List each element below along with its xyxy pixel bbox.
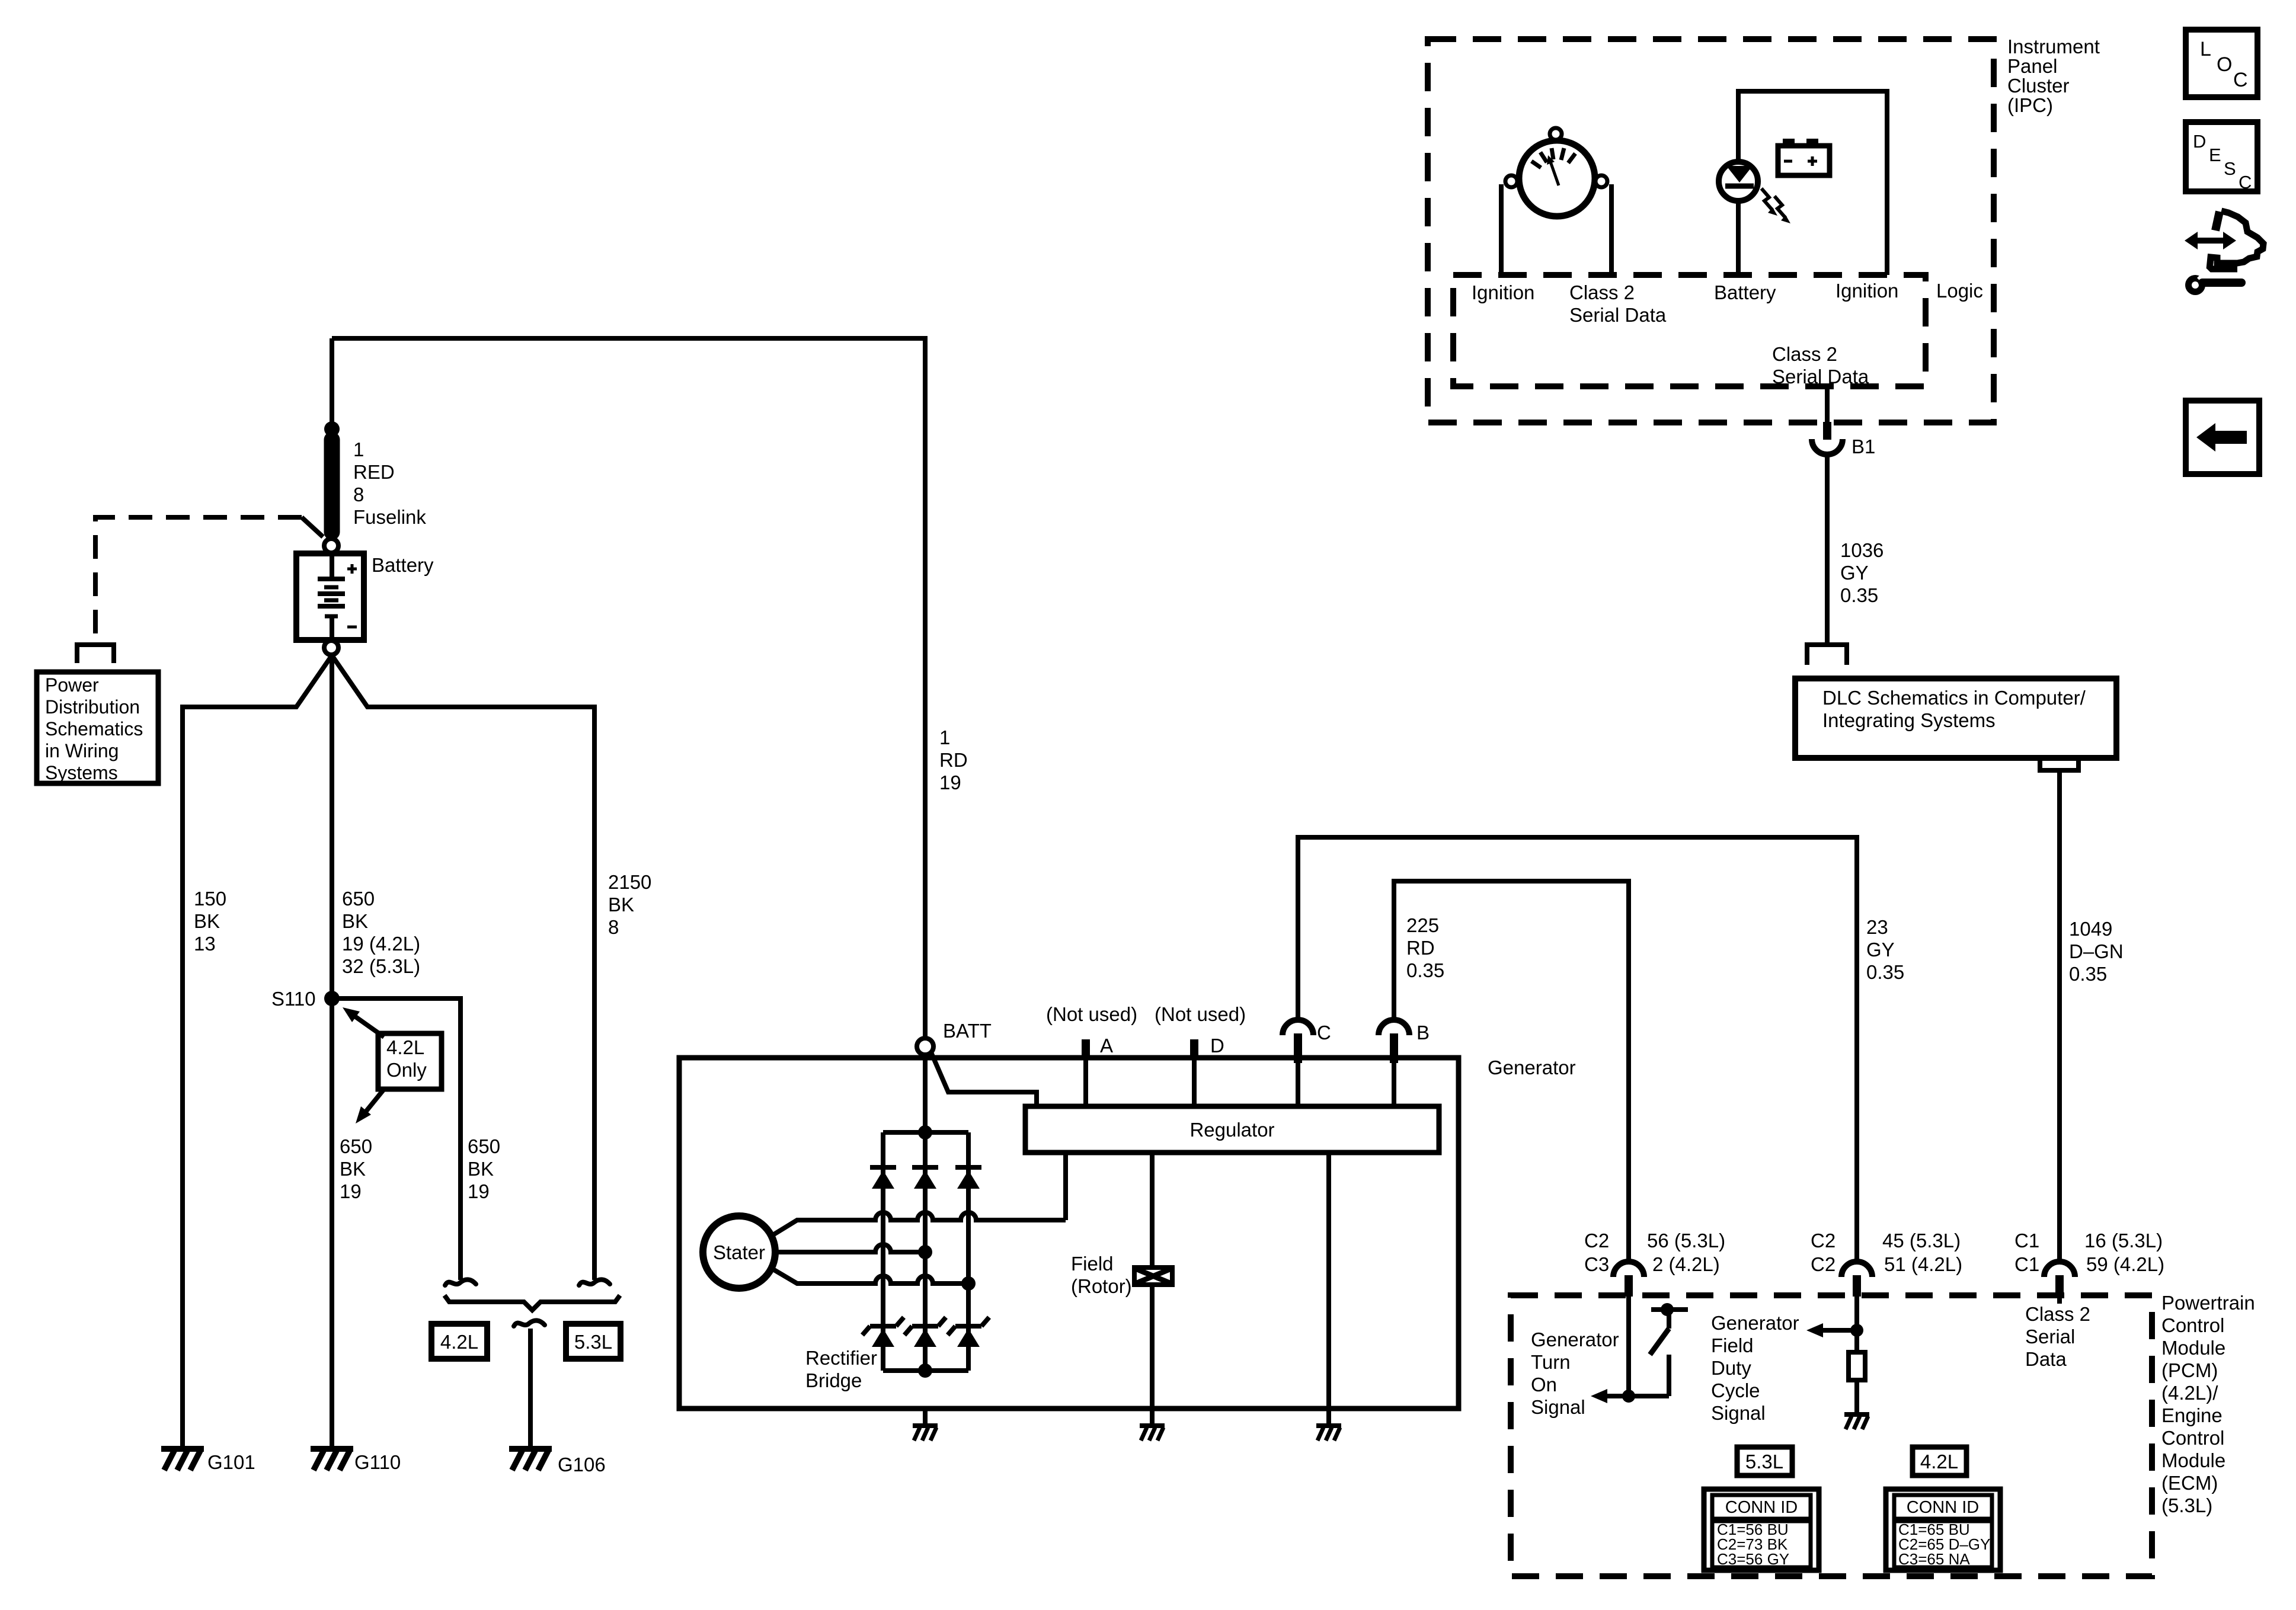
svg-text:in Wiring: in Wiring [45, 740, 119, 761]
svg-text:BK: BK [342, 910, 368, 932]
svg-text:BK: BK [468, 1158, 494, 1180]
svg-text:Field: Field [1071, 1253, 1114, 1275]
svg-text:1: 1 [353, 438, 364, 460]
svg-text:Signal: Signal [1711, 1402, 1766, 1424]
svg-text:Generator: Generator [1711, 1312, 1799, 1334]
svg-text:CONN ID: CONN ID [1725, 1498, 1798, 1517]
svg-text:0.35: 0.35 [1406, 959, 1444, 981]
svg-text:Schematics: Schematics [45, 718, 143, 740]
svg-text:O: O [2217, 53, 2232, 76]
svg-text:19: 19 [939, 772, 961, 793]
svg-text:Ignition: Ignition [1472, 281, 1534, 303]
svg-text:D–GN: D–GN [2069, 940, 2124, 962]
svg-text:Module: Module [2161, 1449, 2225, 1471]
svg-text:D: D [2193, 131, 2206, 152]
svg-text:S110: S110 [271, 988, 316, 1010]
svg-text:19: 19 [340, 1180, 362, 1202]
svg-text:L: L [2200, 38, 2211, 60]
svg-text:4.2L: 4.2L [440, 1331, 478, 1353]
svg-text:Battery: Battery [372, 554, 434, 576]
svg-text:4.2L: 4.2L [1920, 1451, 1958, 1473]
svg-text:CONN ID: CONN ID [1907, 1498, 1979, 1517]
svg-text:A: A [1100, 1035, 1113, 1057]
svg-text:32 (5.3L): 32 (5.3L) [342, 955, 420, 977]
svg-text:650: 650 [340, 1135, 372, 1157]
svg-text:S: S [2224, 158, 2236, 179]
svg-text:C3: C3 [1584, 1253, 1609, 1275]
svg-text:Cluster: Cluster [2007, 75, 2070, 97]
svg-text:19 (4.2L): 19 (4.2L) [342, 933, 420, 955]
svg-text:(ECM): (ECM) [2161, 1472, 2218, 1494]
svg-text:Signal: Signal [1531, 1396, 1585, 1418]
svg-text:C: C [1317, 1022, 1331, 1044]
svg-text:(4.2L)/: (4.2L)/ [2161, 1382, 2218, 1404]
svg-text:59 (4.2L): 59 (4.2L) [2086, 1253, 2164, 1275]
svg-text:E: E [2209, 145, 2221, 165]
svg-text:19: 19 [468, 1180, 490, 1202]
svg-text:C3=56 GY: C3=56 GY [1717, 1550, 1789, 1568]
svg-text:8: 8 [353, 484, 364, 505]
svg-text:G106: G106 [558, 1454, 606, 1475]
svg-text:Systems: Systems [45, 762, 118, 783]
svg-text:Integrating Systems: Integrating Systems [1822, 709, 1996, 731]
svg-text:(Not used): (Not used) [1046, 1003, 1137, 1025]
svg-text:BK: BK [194, 910, 220, 932]
svg-text:16 (5.3L): 16 (5.3L) [2084, 1230, 2163, 1251]
svg-text:(Not used): (Not used) [1155, 1003, 1246, 1025]
svg-text:8: 8 [608, 916, 619, 938]
svg-text:Generator: Generator [1531, 1329, 1619, 1350]
svg-text:13: 13 [194, 933, 216, 955]
svg-text:Duty: Duty [1711, 1357, 1751, 1379]
svg-text:Generator: Generator [1488, 1057, 1576, 1078]
svg-text:Field: Field [1711, 1334, 1754, 1356]
svg-text:G110: G110 [354, 1451, 401, 1473]
svg-text:Control: Control [2161, 1427, 2224, 1449]
svg-text:Engine: Engine [2161, 1404, 2223, 1426]
svg-text:Turn: Turn [1531, 1351, 1571, 1373]
svg-text:RD: RD [1406, 937, 1435, 959]
svg-text:G101: G101 [207, 1451, 255, 1473]
svg-text:650: 650 [342, 888, 375, 910]
svg-text:C2: C2 [1811, 1230, 1835, 1251]
svg-text:4.2L: 4.2L [386, 1036, 424, 1058]
svg-text:Fuselink: Fuselink [353, 506, 426, 528]
svg-text:51 (4.2L): 51 (4.2L) [1884, 1253, 1962, 1275]
svg-text:Bridge: Bridge [805, 1369, 862, 1391]
svg-text:BK: BK [608, 894, 634, 916]
svg-text:(IPC): (IPC) [2007, 94, 2053, 116]
svg-text:Instrument: Instrument [2007, 36, 2100, 57]
svg-text:C2: C2 [1584, 1230, 1609, 1251]
svg-text:(Rotor): (Rotor) [1071, 1275, 1132, 1297]
svg-text:D: D [1210, 1035, 1224, 1057]
svg-text:150: 150 [194, 888, 226, 910]
svg-text:Powertrain: Powertrain [2161, 1292, 2255, 1314]
svg-text:Class 2: Class 2 [1569, 281, 1635, 303]
svg-text:225: 225 [1406, 914, 1439, 936]
svg-text:B1: B1 [1851, 436, 1875, 457]
svg-text:C: C [2233, 69, 2248, 91]
svg-text:Module: Module [2161, 1337, 2225, 1359]
svg-text:On: On [1531, 1374, 1557, 1395]
svg-text:Control: Control [2161, 1314, 2224, 1336]
svg-text:GY: GY [1840, 562, 1869, 584]
svg-text:RED: RED [353, 461, 395, 483]
svg-text:Class 2: Class 2 [2025, 1303, 2090, 1325]
svg-text:Serial Data: Serial Data [1772, 366, 1869, 388]
svg-text:Power: Power [45, 674, 99, 696]
svg-text:Stater: Stater [713, 1241, 765, 1263]
svg-text:(PCM): (PCM) [2161, 1359, 2218, 1381]
svg-text:45 (5.3L): 45 (5.3L) [1882, 1230, 1961, 1251]
svg-text:5.3L: 5.3L [1745, 1451, 1783, 1473]
svg-text:RD: RD [939, 749, 968, 771]
svg-text:1036: 1036 [1840, 539, 1884, 561]
svg-text:Rectifier: Rectifier [805, 1347, 877, 1369]
svg-text:56 (5.3L): 56 (5.3L) [1647, 1230, 1725, 1251]
svg-text:(5.3L): (5.3L) [2161, 1494, 2212, 1516]
svg-text:C1: C1 [2014, 1253, 2039, 1275]
svg-text:5.3L: 5.3L [574, 1331, 612, 1353]
svg-text:Class 2: Class 2 [1772, 343, 1837, 365]
svg-text:23: 23 [1866, 916, 1888, 938]
svg-text:Only: Only [386, 1059, 427, 1081]
svg-text:Data: Data [2025, 1348, 2067, 1370]
svg-text:1: 1 [939, 726, 950, 748]
svg-text:0.35: 0.35 [1840, 584, 1878, 606]
svg-text:C3=65 NA: C3=65 NA [1898, 1550, 1970, 1568]
svg-text:2150: 2150 [608, 871, 651, 893]
svg-text:650: 650 [468, 1135, 500, 1157]
svg-text:C1: C1 [2014, 1230, 2039, 1251]
svg-text:Regulator: Regulator [1189, 1119, 1274, 1141]
svg-text:Cycle: Cycle [1711, 1379, 1760, 1401]
svg-text:C2: C2 [1811, 1253, 1835, 1275]
svg-text:Serial Data: Serial Data [1569, 304, 1667, 326]
svg-text:C: C [2239, 172, 2252, 193]
svg-text:Distribution: Distribution [45, 696, 140, 718]
svg-text:DLC Schematics in Computer/: DLC Schematics in Computer/ [1822, 687, 2086, 709]
svg-text:BATT: BATT [943, 1020, 992, 1042]
svg-text:Logic: Logic [1936, 280, 1983, 302]
svg-text:BK: BK [340, 1158, 366, 1180]
svg-text:B: B [1416, 1022, 1430, 1044]
svg-text:1049: 1049 [2069, 918, 2112, 940]
svg-text:Ignition: Ignition [1835, 280, 1898, 302]
svg-text:Panel: Panel [2007, 55, 2057, 77]
svg-text:2 (4.2L): 2 (4.2L) [1652, 1253, 1720, 1275]
svg-text:Battery: Battery [1714, 281, 1776, 303]
svg-text:0.35: 0.35 [2069, 963, 2107, 985]
svg-text:GY: GY [1866, 939, 1895, 961]
svg-text:0.35: 0.35 [1866, 961, 1904, 983]
svg-text:Serial: Serial [2025, 1326, 2075, 1347]
